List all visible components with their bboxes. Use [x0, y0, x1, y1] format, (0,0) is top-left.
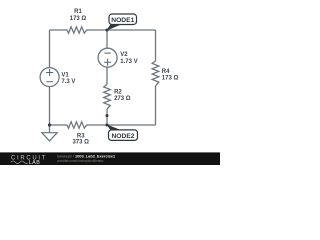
svg-text:LAB: LAB	[29, 160, 41, 165]
svg-text:173 Ω: 173 Ω	[162, 76, 179, 82]
svg-text:173 Ω: 173 Ω	[70, 16, 87, 22]
svg-text:R4: R4	[162, 69, 170, 75]
svg-text:1.73 V: 1.73 V	[120, 59, 137, 65]
svg-text:R2: R2	[114, 90, 122, 96]
svg-text:R1: R1	[74, 9, 82, 15]
svg-text:NODE1: NODE1	[111, 17, 134, 24]
svg-text:373 Ω: 373 Ω	[72, 139, 89, 145]
svg-text:circuitlab.com/c/cxdnxpkhu65ma: circuitlab.com/c/cxdnxpkhu65mabc	[57, 158, 104, 163]
svg-text:273 Ω: 273 Ω	[114, 96, 131, 102]
svg-text:NODE2: NODE2	[111, 133, 134, 140]
svg-text:V2: V2	[120, 52, 128, 58]
svg-text:V1: V1	[61, 72, 69, 78]
svg-text:7.3 V: 7.3 V	[61, 79, 75, 85]
